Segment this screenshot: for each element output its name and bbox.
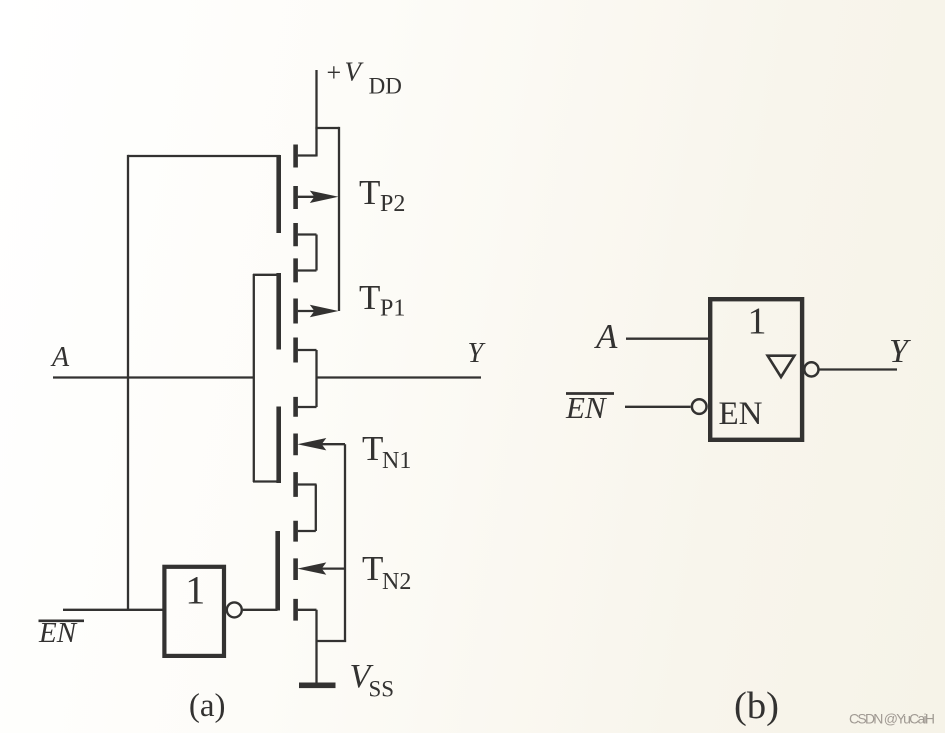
label +VDD — [327, 57, 402, 99]
transistor TN1 channel dashes — [293, 397, 298, 497]
label EN-bar (b) — [565, 390, 614, 425]
wire TN2 source to VSS — [315, 610, 317, 683]
svg-text:(b): (b) — [734, 685, 779, 727]
wire PMOS body rail — [338, 127, 340, 311]
svg-text:A: A — [50, 342, 70, 373]
svg-text:V: V — [345, 57, 365, 87]
svg-text:P2: P2 — [380, 191, 405, 217]
svg-text:DD: DD — [369, 74, 402, 99]
svg-text:T: T — [359, 278, 380, 317]
symbol EN input bubble — [692, 399, 707, 414]
wire A gate column — [253, 274, 280, 482]
svg-text:SS: SS — [369, 677, 395, 702]
transistor TP1 substrate arrow — [298, 305, 339, 317]
svg-text:EN: EN — [565, 390, 608, 425]
svg-text:1: 1 — [748, 301, 767, 343]
wire TP2 source lead — [298, 233, 317, 235]
wire EN-bar input line — [63, 609, 163, 611]
transistor TP2 substrate arrow — [298, 191, 339, 203]
transistor TN2 substrate arrow — [297, 562, 345, 574]
wire TP2-TP1 connector — [298, 235, 317, 271]
transistor TN2 channel dashes — [293, 521, 298, 621]
wire TN1-TN2 connector — [298, 485, 316, 532]
svg-text:+: + — [327, 58, 342, 87]
svg-text:N1: N1 — [382, 448, 411, 474]
svg-text:T: T — [359, 173, 380, 212]
svg-text:CSDN @YuCaiH: CSDN @YuCaiH — [849, 711, 934, 727]
transistor TP1 gate bar — [276, 273, 281, 350]
svg-text:(a): (a) — [189, 688, 226, 724]
symbol output bubble — [804, 362, 818, 376]
label TP2 — [359, 173, 405, 217]
wire EN input (b) — [625, 406, 691, 408]
transistor TN2 gate bar — [275, 531, 280, 611]
wire output node vertical — [315, 350, 317, 407]
wire inverter output line — [243, 609, 278, 611]
transistor TN1 gate bar — [276, 407, 281, 484]
inverter U1 output bubble — [227, 602, 242, 617]
label TP1 — [359, 278, 405, 322]
wire VDD to PMOS body rail corner — [315, 127, 339, 129]
label TN2 — [362, 549, 411, 595]
wire TN2 source lead — [298, 609, 317, 611]
svg-text:A: A — [594, 317, 618, 356]
svg-text:P1: P1 — [380, 296, 405, 322]
label TN1 — [362, 429, 411, 474]
wire TN1 drain lead — [298, 406, 317, 408]
svg-text:T: T — [362, 549, 383, 588]
transistor TP1 channel dashes — [293, 258, 298, 362]
inverter U1 box — [164, 567, 224, 656]
wire A input (b) — [626, 338, 708, 340]
wire VDD lead — [315, 70, 317, 157]
transistor TP2 gate bar — [276, 155, 281, 233]
wire TP2 drain lead — [298, 154, 317, 156]
svg-text:Y: Y — [889, 333, 911, 370]
svg-text:Y: Y — [468, 338, 487, 369]
wire TN1 source lead — [298, 483, 317, 485]
wire TP2 gate — [128, 155, 280, 157]
label EN-bar (a) — [38, 617, 84, 649]
wire A input line — [53, 376, 254, 378]
wire Y output line — [317, 376, 482, 378]
wire Y output (b) — [819, 368, 897, 370]
transistor TN1 substrate arrow — [297, 438, 345, 450]
label VSS — [350, 658, 395, 702]
transistor TP2 channel dashes — [293, 145, 298, 247]
svg-text:T: T — [362, 429, 383, 468]
ground VSS bar — [299, 683, 336, 689]
symbol box (b) — [710, 299, 802, 440]
wire EN-bar bus — [127, 155, 129, 610]
wire NMOS body rail — [317, 444, 347, 641]
svg-text:N2: N2 — [382, 569, 411, 595]
svg-text:EN: EN — [719, 396, 763, 432]
symbol tri-state triangle — [768, 356, 795, 377]
svg-text:1: 1 — [185, 568, 205, 613]
wire TP1 source lead — [298, 349, 317, 351]
